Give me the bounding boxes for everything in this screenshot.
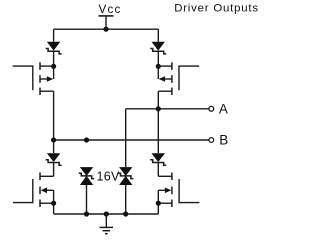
wire top rail Vcc [54,28,159,30]
node rail ground [104,211,109,216]
node rail zener2 [123,211,128,216]
Vcc power symbol [99,16,114,29]
svg-text:16V: 16V [97,169,121,183]
wire Z1 to rail [86,185,88,214]
ground [100,214,113,234]
node rail zener1 [84,211,89,216]
transistor Q2 P-channel top-right [158,62,199,95]
node Q4 source junction [156,201,161,206]
wire left column top [53,29,55,42]
terminal A [209,106,214,111]
wire bottom ground rail [54,213,159,215]
zener pair Z2 16V right [118,167,133,185]
node B zener junction [84,137,89,142]
svg-text:A: A [219,101,228,116]
wire D3 to Q3 drain [53,163,55,177]
wire zener column right from node A [125,109,127,167]
diode D1 schottky top-left [46,42,62,54]
wire Z2 to rail [125,185,127,214]
wire Q2 drain down through node A to D4 [157,91,159,153]
transistor Q3 N-channel bottom-left [13,173,54,215]
wire Q1 drain down to node B [53,91,55,140]
diode D2 schottky top-right [150,42,166,54]
svg-text:Driver Outputs: Driver Outputs [174,3,259,15]
svg-text:Vcc: Vcc [99,3,122,16]
wire right column top [157,29,159,42]
node Q1 source junction [51,64,56,69]
node Q2 source junction [156,64,161,69]
wire node B down to D3 [53,140,55,153]
wire D1 to Q1 [53,51,55,79]
wire D4 to Q4 drain [157,163,159,177]
node B junction [51,137,56,142]
diode D4 schottky bottom-right [150,153,166,165]
node A junction [156,106,161,111]
node Vcc junction [103,27,108,32]
transistor Q1 P-channel top-left [13,62,54,95]
wire output B [54,139,209,141]
wire D2 to Q2 [157,51,159,79]
terminal B [209,138,214,143]
node Q3 source junction [51,201,56,206]
transistor Q4 N-channel bottom-right [158,173,199,215]
zener pair Z1 16V left [79,167,94,185]
diode D3 schottky bottom-left [46,153,62,165]
wire output A [126,108,209,110]
svg-text:B: B [219,133,228,148]
